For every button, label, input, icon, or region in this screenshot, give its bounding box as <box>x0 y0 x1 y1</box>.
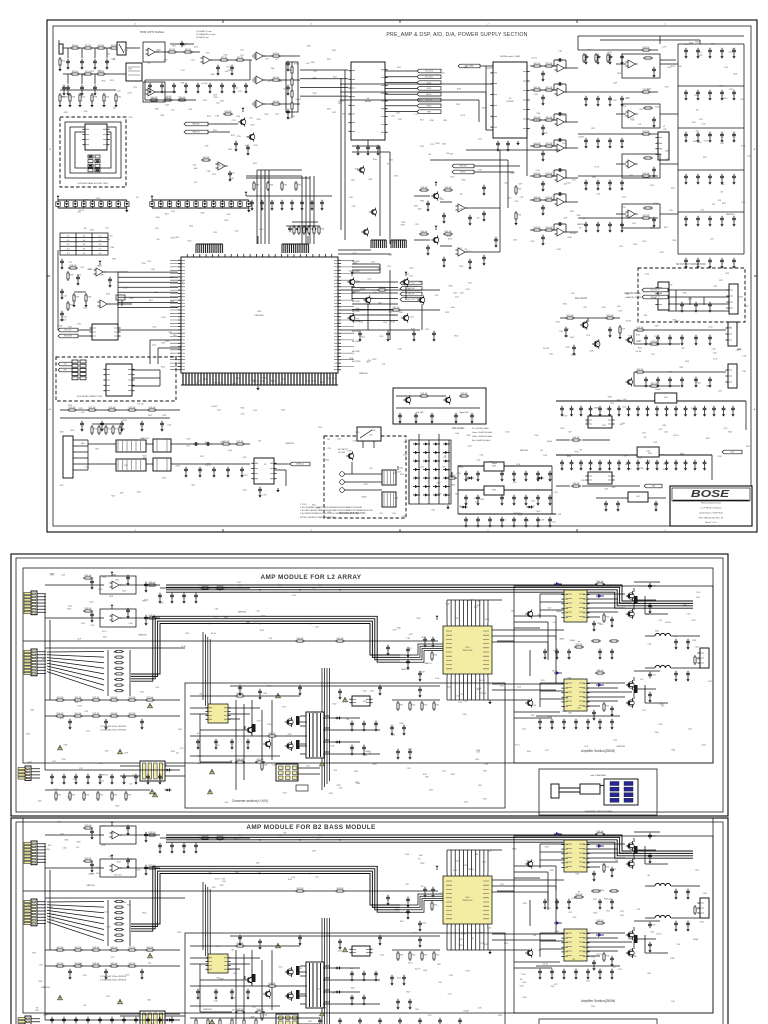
capacitor <box>184 83 188 89</box>
svg-text:10uF: 10uF <box>256 863 260 865</box>
ground <box>301 206 303 208</box>
transistor <box>525 948 533 957</box>
resistor R170 <box>67 409 77 411</box>
svg-text:C100: C100 <box>453 292 457 294</box>
resistor R151 <box>119 425 121 435</box>
svg-text:R175 10K: R175 10K <box>567 315 574 317</box>
svg-text:R127: R127 <box>173 335 177 337</box>
svg-text:1K 1%: 1K 1% <box>697 52 702 54</box>
capacitor <box>720 258 724 264</box>
svg-text:C108: C108 <box>101 845 105 847</box>
svg-text:R135: R135 <box>707 385 711 387</box>
svg-text:100 1%: 100 1% <box>479 680 485 682</box>
svg-text:C122: C122 <box>212 174 216 176</box>
svg-text:100 1%: 100 1% <box>626 320 632 322</box>
svg-text:R101: R101 <box>232 998 236 1000</box>
resistor R176 <box>605 317 615 319</box>
capacitor <box>674 460 678 466</box>
matrix diode <box>443 476 450 479</box>
svg-text:L1™ Model II System: L1™ Model II System <box>701 507 722 510</box>
svg-text:R134: R134 <box>52 914 56 916</box>
svg-text:R113: R113 <box>570 211 574 213</box>
svg-text:R135: R135 <box>213 130 217 132</box>
ground <box>145 838 147 840</box>
resistor R243 <box>267 985 277 987</box>
IC U31 gate driver <box>561 590 589 622</box>
svg-text:R233 10K: R233 10K <box>597 831 604 833</box>
svg-text:R217 10K: R217 10K <box>75 713 82 715</box>
wire <box>352 462 398 474</box>
svg-text:R113: R113 <box>638 347 642 349</box>
svg-text:C122: C122 <box>79 768 83 770</box>
connector CN2 <box>24 649 37 676</box>
svg-text:R112: R112 <box>115 580 119 582</box>
warning symbol <box>150 789 155 794</box>
svg-text:1K 1%: 1K 1% <box>408 963 413 965</box>
svg-text:R123 10K: R123 10K <box>546 173 553 175</box>
svg-text:C118: C118 <box>695 647 699 649</box>
svg-text:C101: C101 <box>402 516 406 518</box>
resistor R193 <box>603 702 605 712</box>
svg-text:C127: C127 <box>663 463 667 465</box>
transistor <box>263 739 271 748</box>
svg-text:C139: C139 <box>672 240 676 242</box>
capacitor <box>557 82 563 86</box>
svg-text:C102: C102 <box>547 608 551 610</box>
svg-text:C109: C109 <box>703 893 707 895</box>
svg-text:R132: R132 <box>535 435 539 437</box>
svg-text:R119: R119 <box>175 237 179 239</box>
capacitor <box>246 989 250 995</box>
svg-text:C128: C128 <box>213 97 217 99</box>
ground <box>549 477 551 479</box>
ground <box>387 337 389 339</box>
capacitor <box>366 145 370 151</box>
wire <box>678 43 744 45</box>
capacitor <box>674 406 678 412</box>
svg-text:C116: C116 <box>644 315 648 317</box>
svg-text:R139: R139 <box>64 112 68 114</box>
svg-text:R129: R129 <box>220 100 224 102</box>
wire <box>668 290 729 311</box>
wire <box>539 844 541 868</box>
signal bus B <box>131 624 400 675</box>
ground <box>339 945 341 947</box>
capacitor <box>543 649 547 655</box>
svg-text:R117: R117 <box>668 67 672 69</box>
op-amp U10 <box>555 174 567 182</box>
capacitor <box>598 460 602 466</box>
svg-text:1uF 16V: 1uF 16V <box>570 233 577 235</box>
capacitor <box>610 617 614 623</box>
svg-text:R111: R111 <box>630 175 634 177</box>
capacitor <box>234 141 238 147</box>
transistor <box>525 698 533 707</box>
warning symbol <box>208 789 213 794</box>
ground <box>647 412 649 414</box>
resistor R211 <box>73 699 83 701</box>
U30 bottom rail <box>447 699 530 701</box>
ground <box>621 228 623 230</box>
svg-text:C136: C136 <box>581 480 585 482</box>
svg-text:R186 10K: R186 10K <box>85 608 92 610</box>
svg-text:R131: R131 <box>178 932 182 934</box>
ground <box>609 466 611 468</box>
svg-text:2.2uF: 2.2uF <box>435 678 439 680</box>
ground <box>121 427 123 429</box>
svg-text:C130: C130 <box>89 602 93 604</box>
svg-text:3. ALL UNPOLARIZED CAPACITORS/: 3. ALL UNPOLARIZED CAPACITORS/DECIMALS I… <box>300 509 374 512</box>
capacitor <box>541 151 545 157</box>
pulse transformer T3 <box>153 439 171 452</box>
title block frame <box>670 486 752 526</box>
svg-text:R109: R109 <box>106 97 110 99</box>
svg-text:MMBT3904: MMBT3904 <box>203 1009 211 1011</box>
ground <box>407 903 409 905</box>
svg-text:C122: C122 <box>642 710 646 712</box>
svg-text:R114: R114 <box>568 677 572 679</box>
ground <box>675 895 677 897</box>
wire <box>530 145 556 147</box>
capacitor <box>288 226 292 232</box>
resistor stub row <box>292 221 318 223</box>
capacitor <box>238 935 242 941</box>
capacitor <box>596 138 600 144</box>
wire <box>634 588 645 614</box>
svg-text:R124: R124 <box>700 921 704 923</box>
signal bus A <box>166 835 693 851</box>
transistor Q11 <box>403 395 411 404</box>
warning symbol <box>210 769 215 774</box>
svg-text:C122: C122 <box>620 911 624 913</box>
svg-text:R122: R122 <box>133 775 137 777</box>
svg-text:R120: R120 <box>165 341 169 343</box>
capacitor <box>696 132 700 138</box>
svg-text:C109: C109 <box>696 592 700 594</box>
svg-text:R107: R107 <box>60 718 64 720</box>
ground <box>465 477 467 479</box>
svg-text:C133: C133 <box>264 114 268 116</box>
ground <box>653 223 655 225</box>
capacitor <box>693 406 697 412</box>
svg-text:R167: R167 <box>298 185 302 187</box>
ground <box>637 466 639 468</box>
svg-text:C133: C133 <box>442 466 446 468</box>
wire gate to FETs <box>587 594 632 612</box>
wire <box>645 667 700 669</box>
ground <box>465 501 467 503</box>
svg-text:C119: C119 <box>586 335 590 337</box>
svg-text:10k: 10k <box>83 235 86 237</box>
reference designator text field <box>312 427 460 518</box>
capacitor <box>50 1017 54 1023</box>
svg-text:R34 10K: R34 10K <box>237 57 243 59</box>
converter transformer T10 <box>300 962 330 1008</box>
ground <box>247 151 249 153</box>
inductor L30 <box>140 761 165 781</box>
resistor R31 <box>167 51 177 53</box>
ground <box>235 147 237 149</box>
svg-text:R120: R120 <box>629 336 633 338</box>
svg-text:R110: R110 <box>142 263 146 265</box>
ground <box>609 144 611 146</box>
resistor R189 <box>200 587 210 589</box>
matrix diode <box>433 493 440 496</box>
svg-text:R125: R125 <box>447 236 451 238</box>
resistor R215 <box>145 699 155 701</box>
svg-text:NOTES: (UNLESS OTHERWISE NOTED: NOTES: (UNLESS OTHERWISE NOTED) <box>300 517 336 519</box>
resistor R204 <box>55 791 57 801</box>
matrix diode <box>413 476 420 479</box>
resistor <box>643 107 653 109</box>
matrix diode <box>443 451 450 454</box>
capacitor <box>648 692 652 698</box>
svg-text:R102: R102 <box>699 55 703 57</box>
svg-text:R133: R133 <box>142 600 146 602</box>
svg-text:100 1%: 100 1% <box>673 435 679 437</box>
svg-text:R130: R130 <box>640 468 644 470</box>
resistor R258 <box>73 965 83 967</box>
svg-text:R108: R108 <box>211 74 215 76</box>
svg-text:330: 330 <box>421 886 424 888</box>
svg-text:R110: R110 <box>73 779 77 781</box>
ground <box>537 477 539 479</box>
resistor R148 <box>98 425 100 435</box>
capacitor <box>196 739 200 745</box>
svg-text:1000pF: 1000pF <box>655 389 660 391</box>
wire <box>352 146 390 152</box>
svg-text:R122: R122 <box>660 252 664 254</box>
resistor R175 <box>565 317 575 319</box>
svg-text:0.1u: 0.1u <box>99 240 102 242</box>
resistor R149 <box>105 425 107 435</box>
svg-text:R119: R119 <box>695 42 699 44</box>
ground <box>359 337 361 339</box>
wire <box>430 150 560 160</box>
capacitor <box>430 413 434 419</box>
svg-text:R122: R122 <box>149 300 153 302</box>
bus junction dots <box>199 834 201 836</box>
capacitor <box>627 406 631 412</box>
svg-text:C129: C129 <box>408 648 412 650</box>
ground <box>419 927 421 929</box>
net label TEST <box>417 110 441 114</box>
ground <box>387 901 389 903</box>
capacitor <box>158 1017 162 1023</box>
capacitor <box>406 909 410 915</box>
ground <box>351 751 353 753</box>
svg-text:10uF: 10uF <box>562 115 566 117</box>
ground <box>597 102 599 104</box>
svg-text:R138: R138 <box>224 617 228 619</box>
svg-text:C101: C101 <box>315 876 319 878</box>
svg-text:1000pF: 1000pF <box>570 640 575 642</box>
net label SCLK <box>417 81 441 85</box>
svg-text:R133: R133 <box>557 249 561 251</box>
ground <box>593 627 595 629</box>
capacitor <box>586 719 590 725</box>
resistor R238 <box>335 890 345 892</box>
op-amp U1A <box>146 48 158 56</box>
svg-text:R115: R115 <box>482 862 486 864</box>
capacitor <box>196 989 200 995</box>
capacitor <box>708 216 712 222</box>
capacitor <box>610 719 614 725</box>
svg-text:C102: C102 <box>339 788 343 790</box>
capacitor <box>646 460 650 466</box>
capacitor <box>98 1017 102 1023</box>
svg-text:5.1KVA/200W 240Vac VERSION: 5.1KVA/200W 240Vac VERSION <box>100 729 127 732</box>
svg-text:100 1%: 100 1% <box>532 57 538 59</box>
resistor R231 <box>215 837 225 839</box>
wire <box>565 231 578 233</box>
svg-text:R103: R103 <box>102 80 106 82</box>
resistor R196 <box>295 640 305 642</box>
pin header <box>371 240 386 248</box>
svg-text:C127: C127 <box>79 963 83 965</box>
ground <box>261 206 263 208</box>
ground <box>656 466 658 468</box>
resistor R181 <box>649 385 659 387</box>
svg-text:R150: R150 <box>115 429 119 431</box>
resistor R221 <box>397 701 399 711</box>
svg-text:R103: R103 <box>312 380 316 382</box>
capacitor <box>246 145 250 151</box>
diode <box>467 477 474 480</box>
op-amp U21B <box>110 864 122 872</box>
capacitor <box>62 85 66 91</box>
ground <box>215 995 217 997</box>
svg-text:R174 10K: R174 10K <box>149 407 156 409</box>
svg-text:R131: R131 <box>665 86 669 88</box>
svg-text:R102: R102 <box>171 751 175 753</box>
svg-text:C112: C112 <box>313 71 317 73</box>
ground <box>477 523 479 525</box>
capacitor <box>586 969 590 975</box>
svg-text:cable TO AMP/BASS: cable TO AMP/BASS <box>590 774 607 777</box>
svg-text:R123: R123 <box>575 452 579 454</box>
svg-text:330: 330 <box>647 875 650 877</box>
svg-text:R127: R127 <box>373 764 377 766</box>
reference designator text field <box>27 902 187 1024</box>
warning symbol <box>343 697 348 702</box>
svg-text:C132: C132 <box>80 267 84 269</box>
resistor R209 <box>125 791 127 801</box>
ground <box>585 60 587 62</box>
svg-text:R205: R205 <box>72 795 76 797</box>
ground <box>542 211 544 213</box>
svg-text:R108: R108 <box>94 97 98 99</box>
svg-text:C120: C120 <box>741 202 745 204</box>
capacitor <box>674 889 678 895</box>
ground <box>687 645 689 647</box>
IC U19 <box>484 486 504 495</box>
ground <box>599 725 601 727</box>
capacitor <box>286 61 290 67</box>
svg-text:C112: C112 <box>369 298 373 300</box>
svg-text:R116: R116 <box>378 268 382 270</box>
ground <box>563 725 565 727</box>
svg-text:R109: R109 <box>68 405 72 407</box>
net label DSP_FS <box>400 292 422 296</box>
resistor R34 <box>235 59 245 61</box>
capacitor <box>548 471 552 477</box>
ground <box>657 383 659 385</box>
svg-text:C104: C104 <box>441 73 445 75</box>
amp interior wires <box>514 866 560 968</box>
resistor R152 <box>221 443 231 445</box>
resistor <box>114 917 124 919</box>
ground <box>597 144 599 146</box>
svg-text:DSP_FS: DSP_FS <box>408 294 415 296</box>
svg-text:MMBT3904: MMBT3904 <box>617 746 625 748</box>
gain stage box <box>143 42 165 62</box>
op-amp U1B <box>146 88 158 96</box>
svg-text:R127: R127 <box>283 792 287 794</box>
svg-text:R139: R139 <box>733 73 737 75</box>
op-amp U8 <box>555 118 567 126</box>
wire <box>367 140 369 145</box>
capacitor <box>356 145 360 151</box>
capacitor <box>572 345 576 351</box>
resistor R256 <box>145 949 155 951</box>
svg-text:R139: R139 <box>526 861 530 863</box>
capacitor <box>426 245 430 251</box>
capacitor <box>560 406 564 412</box>
svg-text:2.2uF: 2.2uF <box>562 143 566 145</box>
svg-text:R114: R114 <box>698 142 702 144</box>
svg-text:R117 10K: R117 10K <box>546 87 553 89</box>
svg-text:C107: C107 <box>446 470 450 472</box>
signal bus B into IC <box>400 644 443 655</box>
transistor Q16 <box>431 235 439 244</box>
svg-text:R114: R114 <box>361 336 365 338</box>
capacitor <box>350 995 354 1001</box>
svg-text:C128: C128 <box>207 171 211 173</box>
ground <box>251 206 253 208</box>
wire <box>500 150 508 252</box>
op-amp U9 <box>555 144 567 152</box>
resistor R265 <box>433 951 435 961</box>
wire <box>156 52 200 92</box>
resistor R182 <box>571 439 581 441</box>
capacitor <box>732 90 736 96</box>
input jack J1 <box>59 44 63 54</box>
warning symbol <box>58 745 63 750</box>
ground <box>379 691 381 693</box>
svg-text:R237 10K: R237 10K <box>297 888 304 890</box>
ground <box>469 221 471 223</box>
svg-text:C127: C127 <box>63 316 67 318</box>
svg-text:R116: R116 <box>68 326 72 328</box>
svg-text:R134: R134 <box>598 57 602 59</box>
svg-text:TEST: TEST <box>427 111 431 113</box>
svg-text:C111: C111 <box>64 295 68 297</box>
capacitor <box>616 501 620 507</box>
protection diode <box>159 200 163 208</box>
capacitor <box>598 899 602 905</box>
ground <box>681 308 683 310</box>
svg-text:10uF: 10uF <box>120 493 124 495</box>
converter section enclosure <box>185 683 505 808</box>
svg-text:C103: C103 <box>213 95 217 97</box>
ground <box>647 466 649 468</box>
resistor R154 <box>419 395 429 397</box>
svg-text:1K 1%: 1K 1% <box>627 468 632 470</box>
svg-text:R123: R123 <box>547 908 551 910</box>
svg-text:R114: R114 <box>143 455 147 457</box>
svg-text:1000pF: 1000pF <box>653 203 658 205</box>
